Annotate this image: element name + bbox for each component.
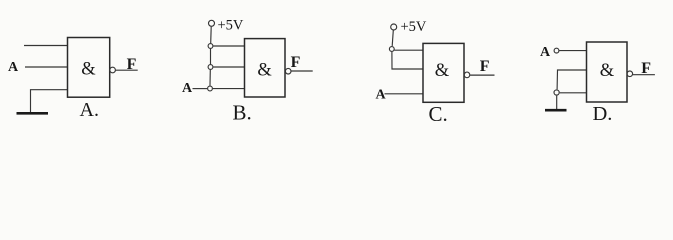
wire D-in1 (input A)	[559, 50, 586, 52]
svg-text:&: &	[257, 61, 272, 81]
wire A-in1 (top unlabeled input)	[24, 45, 68, 47]
terminal +5V (gate B)	[209, 20, 215, 26]
wire to ground (gate D)	[556, 96, 558, 110]
ground (gate A third input)	[17, 112, 49, 115]
wire +5V rail (gate B)	[210, 27, 213, 44]
svg-text:F: F	[291, 54, 301, 71]
output bubble U2	[285, 68, 291, 74]
wire F output (gate B)	[291, 70, 312, 72]
nand gate U4 (option D)	[587, 42, 628, 102]
svg-text:+5V: +5V	[218, 17, 244, 33]
junction circle B2	[208, 65, 213, 70]
svg-text:&: &	[600, 61, 615, 81]
svg-text:A: A	[540, 45, 551, 60]
svg-text:F: F	[480, 58, 490, 75]
svg-text:A: A	[376, 88, 387, 103]
terminal circle A (gate D)	[554, 48, 559, 53]
wire A-in2 (input A)	[25, 66, 68, 68]
junction circle B3	[208, 86, 213, 91]
wire B-in2	[213, 66, 244, 68]
svg-text:A: A	[8, 60, 19, 75]
junction circle C1	[389, 47, 394, 52]
wire C-in1	[394, 49, 423, 51]
wire rail seg2 (gate B)	[210, 49, 212, 64]
svg-text:C.: C.	[429, 102, 448, 126]
wire A-in3 (grounded input)	[31, 90, 68, 113]
svg-text:F: F	[127, 56, 137, 73]
svg-text:+5V: +5V	[401, 19, 427, 35]
wire A to junction (gate B)	[193, 88, 208, 90]
nand gate U2 (option B)	[245, 39, 286, 97]
wire rail seg3 (gate B)	[209, 70, 211, 86]
wire C-in3 (input A)	[385, 93, 424, 95]
wire D-in3 (from ground junction)	[560, 92, 587, 94]
wire B-in1	[213, 45, 244, 47]
wire +5V rail (gate C)	[392, 30, 393, 46]
ground (gate D)	[545, 109, 567, 112]
svg-text:A: A	[182, 81, 193, 96]
output bubble U1	[110, 67, 116, 73]
wire F output (gate D)	[633, 74, 655, 76]
wire F output (gate C)	[470, 74, 494, 76]
svg-text:A.: A.	[80, 99, 99, 121]
svg-text:&: &	[81, 60, 96, 80]
output bubble U4	[627, 71, 633, 77]
svg-text:F: F	[641, 60, 651, 77]
junction circle D1 (ground node)	[554, 90, 559, 95]
wire F output (gate A)	[115, 69, 137, 71]
nand gate U3 (option C)	[423, 43, 464, 102]
svg-text:B.: B.	[233, 101, 252, 125]
svg-text:D.: D.	[593, 103, 613, 125]
wire B-in3	[213, 88, 245, 90]
svg-text:&: &	[435, 61, 450, 81]
output bubble U3	[464, 72, 470, 78]
junction circle B1	[208, 44, 213, 49]
nand gate U1 (option A)	[68, 38, 110, 98]
terminal +5V (gate C)	[391, 24, 397, 30]
wire C-in2 (from junction down then right)	[392, 52, 423, 69]
wire D-in2 (to ground junction)	[557, 70, 586, 89]
